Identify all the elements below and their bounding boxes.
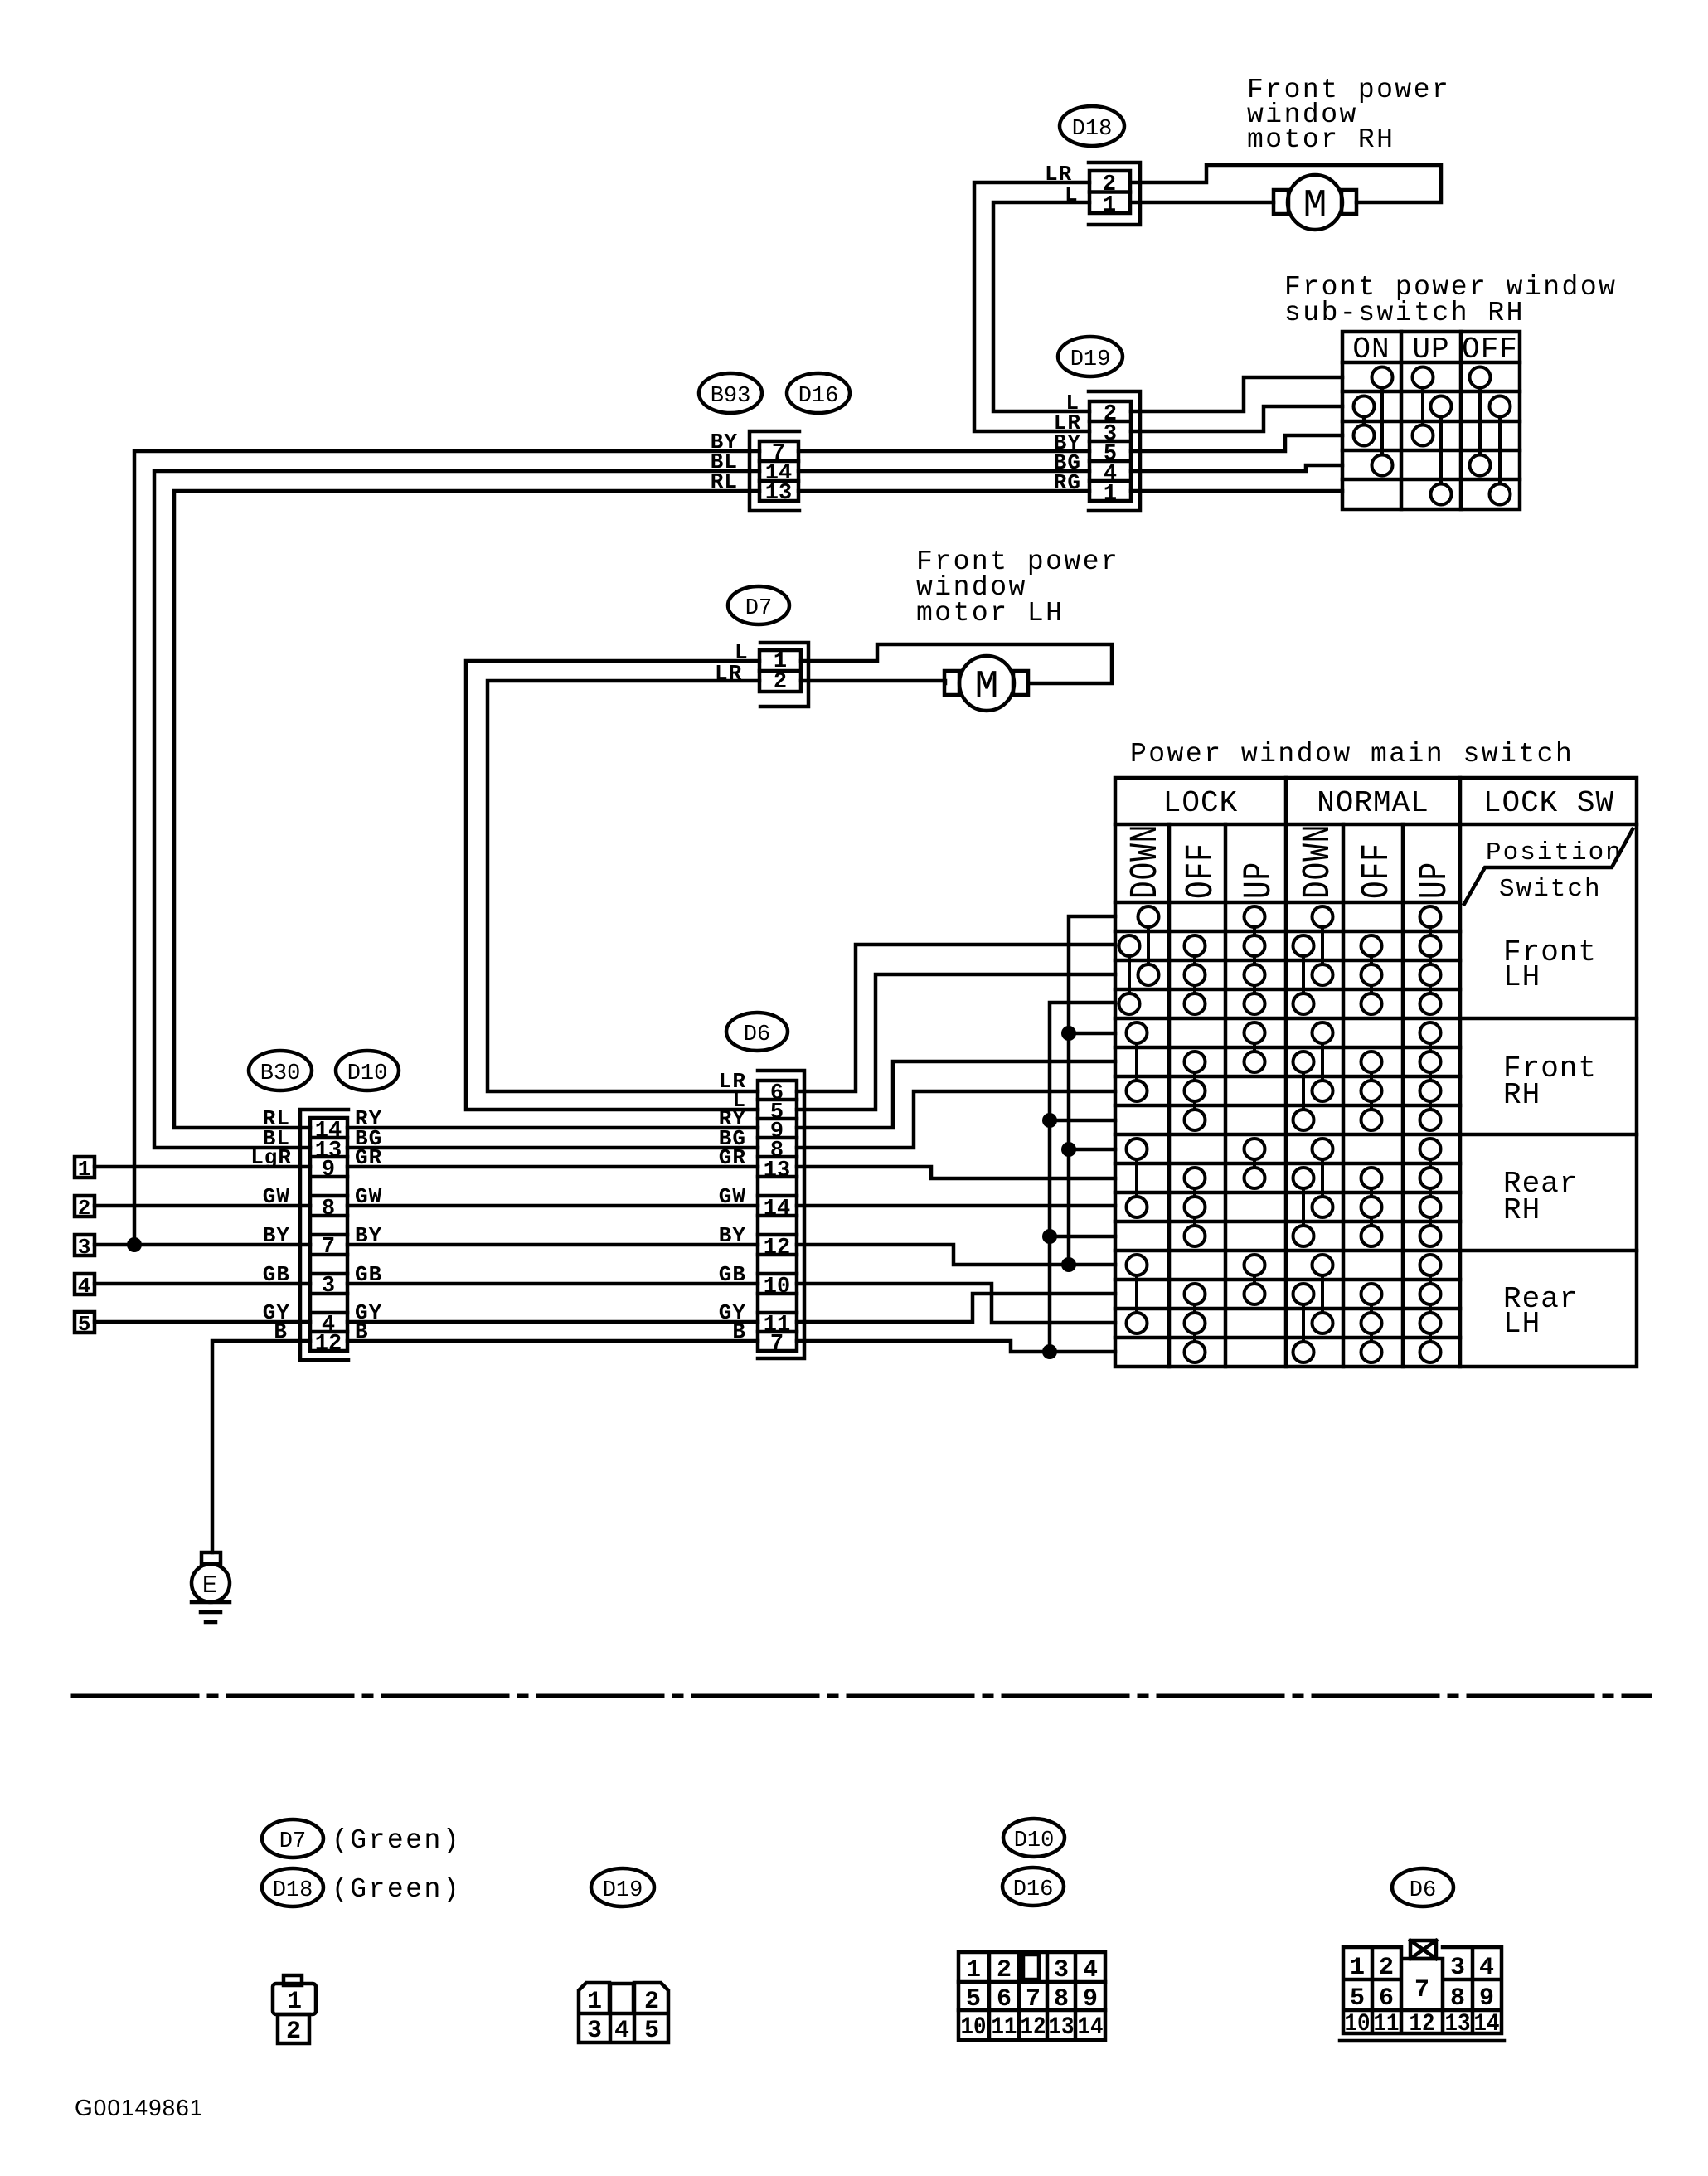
position/switch split cell	[1464, 829, 1633, 904]
wire D6 pin7 B to Rear LH row4 and ground bus	[797, 1341, 1115, 1352]
svg-text:motor RH: motor RH	[1247, 124, 1395, 155]
svg-text:RH: RH	[1503, 1193, 1541, 1227]
wire D7 pin2 to motor LH	[801, 681, 945, 683]
pinout D6	[1340, 1940, 1504, 2041]
svg-text:13: 13	[764, 1158, 790, 1183]
svg-text:3: 3	[1450, 1954, 1465, 1982]
svg-text:UP: UP	[1413, 862, 1458, 899]
svg-text:(Green): (Green)	[332, 1825, 461, 1856]
contact lines Rear LH block	[1137, 1265, 1430, 1353]
pinout D16	[958, 1952, 1105, 2042]
wire box2 to D10 pin8 GW	[95, 1204, 310, 1208]
connector D18	[1089, 163, 1140, 225]
separator dash-dot line	[73, 1694, 1650, 1698]
svg-text:8: 8	[1450, 1984, 1465, 2013]
svg-text:D18: D18	[273, 1878, 313, 1903]
wire color labels left of D6	[719, 1069, 746, 1344]
wire D19 pin2 to sub-switch row1	[1131, 377, 1342, 411]
connector B30/D10	[300, 1110, 348, 1360]
wire D6 pin6 LR to Front LH row2	[797, 945, 1115, 1091]
wire GR: D10 pin9 to D6 pin13	[347, 1165, 758, 1169]
power window main switch table frame	[1115, 778, 1637, 1367]
motor M front power window motor RH	[1274, 175, 1356, 230]
svg-text:3: 3	[587, 2017, 602, 2045]
svg-text:7: 7	[1026, 1985, 1041, 2013]
svg-text:M: M	[1303, 184, 1327, 229]
svg-text:OFF: OFF	[1355, 843, 1400, 899]
wire RL: B93 pin13 left run, drop, into D10 pin14	[174, 491, 759, 1128]
sub-switch contact lines	[1364, 377, 1500, 494]
connector D7	[759, 643, 808, 707]
pinout D7/D18	[273, 1975, 316, 2046]
svg-text:9: 9	[1083, 1985, 1098, 2013]
svg-text:NORMAL: NORMAL	[1317, 786, 1429, 820]
svg-text:4: 4	[614, 2017, 629, 2045]
svg-text:8: 8	[1054, 1985, 1069, 2013]
svg-text:5: 5	[644, 2017, 659, 2045]
connector label D6 (bottom)	[1392, 1868, 1453, 1906]
svg-text:6: 6	[1379, 1984, 1394, 2013]
svg-text:13: 13	[1049, 2013, 1075, 2042]
connector label B30	[249, 1051, 312, 1090]
svg-text:12: 12	[1410, 2010, 1435, 2038]
wire box3 to D10 pin7 BY	[95, 1243, 310, 1247]
sub-switch contact circles	[1354, 367, 1511, 505]
svg-text:G00149861: G00149861	[75, 2095, 203, 2120]
svg-text:7: 7	[322, 1235, 335, 1260]
connector label D7 (bottom)	[262, 1819, 323, 1858]
svg-text:4: 4	[1479, 1954, 1494, 1982]
wire color labels left of D10	[250, 1106, 292, 1344]
wire D6 pin14 GW to Rear RH row3	[797, 1204, 1115, 1208]
svg-text:D19: D19	[603, 1878, 643, 1903]
wire box4 to D10 pin3 GB	[95, 1282, 310, 1286]
connector D19	[1089, 391, 1140, 511]
svg-text:RH: RH	[1503, 1078, 1541, 1112]
svg-text:12: 12	[1021, 2013, 1046, 2042]
wire GY: D10 pin4 to D6 pin11	[347, 1320, 758, 1324]
svg-text:5: 5	[966, 1985, 981, 2013]
svg-text:Power window main switch: Power window main switch	[1130, 739, 1574, 770]
connector label D6	[726, 1013, 788, 1051]
bus stub to Rear RH row4	[1050, 1235, 1115, 1239]
wire GB: D10 pin3 to D6 pin10	[347, 1282, 758, 1286]
svg-text:11: 11	[992, 2013, 1017, 2042]
svg-text:4: 4	[1083, 1956, 1098, 1984]
wire D6 pin8 BG to Front RH row3	[797, 1091, 1115, 1148]
svg-text:12: 12	[764, 1236, 790, 1260]
connector label D7	[728, 586, 789, 624]
svg-text:5: 5	[78, 1312, 92, 1337]
bus stub to Rear RH row1	[1069, 1148, 1115, 1152]
bus wire row1 common	[1069, 916, 1115, 1265]
junction dot bus2/Front RH row4	[1042, 1113, 1057, 1128]
wire color labels at B93	[711, 430, 738, 494]
wire BY: D16 pin7 to D19 pin5	[798, 449, 1089, 454]
svg-text:LH: LH	[1503, 1307, 1541, 1341]
node box 2	[75, 1196, 95, 1221]
contact circles Rear RH block	[1127, 1139, 1441, 1246]
connector label D16	[787, 373, 850, 413]
bus stub to Front RH row4	[1050, 1119, 1115, 1123]
svg-text:D16: D16	[798, 384, 839, 409]
wire D18 pin2 to motor RH (upper loop)	[1130, 165, 1441, 202]
svg-text:1: 1	[587, 1988, 602, 2016]
svg-text:(Green): (Green)	[332, 1874, 461, 1905]
svg-text:2: 2	[644, 1988, 659, 2016]
svg-text:D6: D6	[1410, 1878, 1436, 1903]
svg-text:D7: D7	[279, 1829, 306, 1854]
svg-text:D18: D18	[1072, 117, 1113, 142]
svg-text:D10: D10	[347, 1061, 388, 1086]
svg-text:Switch: Switch	[1499, 875, 1602, 904]
wire BG: D10 pin13 to D6 pin8	[347, 1146, 758, 1150]
sub-switch RH table	[1342, 332, 1520, 509]
svg-text:9: 9	[1479, 1984, 1494, 2013]
wire D7 pin2 to D6 pin6 (LR)	[488, 681, 759, 1091]
svg-text:sub-switch RH: sub-switch RH	[1284, 298, 1525, 328]
wire box1 to D10 pin9 LgR	[95, 1165, 310, 1169]
motor M front power window motor LH	[944, 656, 1028, 711]
bus wire row4 common (ground)	[1050, 1003, 1115, 1352]
connector label D19 (bottom)	[591, 1868, 654, 1906]
row label Front LH	[1503, 935, 1597, 994]
svg-text:1: 1	[1104, 482, 1117, 507]
svg-text:D6: D6	[744, 1022, 770, 1047]
svg-text:12: 12	[315, 1332, 342, 1357]
svg-text:motor LH: motor LH	[916, 598, 1064, 629]
junction dot bus1/Rear RH row1	[1061, 1142, 1076, 1157]
node box 3	[75, 1235, 95, 1260]
svg-text:OFF: OFF	[1179, 843, 1224, 899]
wire D19 pin3 to sub-switch row2	[1131, 406, 1342, 431]
svg-text:4: 4	[78, 1274, 92, 1299]
wire D19 pin5 to sub-switch row3	[1131, 435, 1342, 451]
svg-text:B93: B93	[711, 384, 751, 409]
svg-text:LOCK SW: LOCK SW	[1483, 786, 1614, 820]
svg-text:14: 14	[1474, 2010, 1500, 2038]
wire D18 pin1 to motor RH	[1130, 201, 1274, 205]
svg-text:3: 3	[78, 1235, 92, 1260]
svg-text:1: 1	[287, 1988, 302, 2016]
wire D18 pin1 to D19 pin2	[993, 202, 1089, 411]
svg-text:13: 13	[765, 481, 792, 506]
wire color labels right of D10	[355, 1106, 382, 1344]
connector label D16 (bottom)	[1002, 1868, 1064, 1906]
pinout D19	[579, 1983, 668, 2045]
svg-text:5: 5	[1350, 1984, 1365, 2013]
junction dot bus1/Front RH row1	[1061, 1026, 1076, 1041]
connector label D18	[1060, 106, 1124, 146]
connector label D19	[1058, 337, 1123, 376]
connector label B93	[699, 373, 762, 413]
svg-text:UP: UP	[1237, 862, 1282, 899]
wire B to ground drop	[212, 1341, 310, 1552]
contact lines Front RH block	[1137, 1033, 1430, 1120]
svg-text:OFF: OFF	[1462, 333, 1518, 367]
svg-text:M: M	[975, 665, 999, 710]
label Front power window motor RH	[1247, 75, 1450, 155]
wire D19 pin1 to sub-switch row5	[1131, 489, 1342, 493]
svg-text:2: 2	[774, 670, 787, 695]
row label Rear RH	[1503, 1167, 1578, 1227]
connector label D10 (bottom)	[1003, 1819, 1065, 1857]
ground E	[192, 1552, 230, 1622]
svg-text:3: 3	[322, 1274, 335, 1299]
label Front power window motor LH	[916, 546, 1119, 629]
wire D18 pin2 to D19 pin3	[974, 182, 1089, 431]
svg-text:D19: D19	[1070, 347, 1111, 372]
svg-text:10: 10	[1345, 2010, 1371, 2038]
junction dot bus1 bottom on BY wire	[1061, 1257, 1076, 1272]
svg-text:2: 2	[78, 1196, 92, 1221]
svg-text:DOWN: DOWN	[1296, 824, 1341, 899]
svg-text:3: 3	[1054, 1956, 1069, 1984]
junction dot BY vertical to box3 wire	[127, 1237, 142, 1252]
svg-text:1: 1	[1103, 193, 1116, 218]
junction dot bus2/Rear RH row4	[1042, 1229, 1057, 1244]
wire B: D10 pin12 to D6 pin7	[347, 1339, 758, 1343]
wire color labels at D19	[1054, 391, 1081, 495]
svg-text:10: 10	[764, 1275, 790, 1299]
connector D6	[758, 1071, 804, 1358]
connector B93/D16	[750, 431, 799, 511]
row label Rear LH	[1503, 1282, 1578, 1341]
contact lines Front LH block	[1129, 917, 1430, 1004]
node box 5	[75, 1312, 95, 1337]
wire D6 pin13 GR to Rear RH row2	[797, 1167, 1115, 1178]
svg-text:UP: UP	[1412, 333, 1449, 367]
wire D6 pin5 L to Front LH row3	[797, 974, 1115, 1110]
contact circles Rear LH block	[1127, 1255, 1441, 1362]
row label Front RH	[1503, 1052, 1597, 1112]
svg-text:7: 7	[770, 1332, 784, 1357]
svg-text:B30: B30	[260, 1061, 301, 1086]
svg-text:7: 7	[1414, 1976, 1429, 2004]
wire D6 pin12 BY to Rear LH row1 and bus	[797, 1245, 1115, 1265]
svg-text:LOCK: LOCK	[1163, 786, 1238, 820]
wire RY: D10 pin14 to D6 pin9	[347, 1126, 758, 1130]
svg-text:10: 10	[961, 2013, 987, 2042]
wire D6 pin10 GB to Rear LH row3	[797, 1284, 1115, 1323]
bus stub to Front RH row1	[1069, 1032, 1115, 1036]
svg-text:D10: D10	[1014, 1829, 1055, 1853]
wire BG: D16 pin14 to D19 pin4	[798, 469, 1089, 474]
svg-text:1: 1	[78, 1157, 92, 1182]
svg-text:LH: LH	[1503, 960, 1541, 994]
contact circles Front RH block	[1127, 1022, 1441, 1130]
wire D6 pin11 GY to Rear LH row2	[797, 1294, 1115, 1322]
contact lines Rear RH block	[1137, 1149, 1430, 1236]
svg-text:ON: ON	[1352, 333, 1390, 367]
wire RG: D16 pin13 to D19 pin1	[798, 489, 1089, 493]
svg-text:1: 1	[966, 1956, 981, 1984]
svg-text:DOWN: DOWN	[1123, 824, 1168, 899]
wire D19 pin4 to sub-switch row4	[1131, 465, 1342, 471]
svg-text:8: 8	[322, 1197, 335, 1222]
svg-text:D16: D16	[1013, 1877, 1054, 1902]
connector label D18 (bottom)	[262, 1868, 323, 1906]
svg-text:D7: D7	[745, 596, 772, 621]
svg-text:2: 2	[1379, 1954, 1394, 1982]
wire D7 pin1 to D6 pin5 (L)	[466, 661, 759, 1110]
wire BY: B93 pin7 left run and drop to junction	[134, 451, 759, 1245]
wire BY: D10 pin7 to D6 pin12	[347, 1243, 758, 1247]
svg-text:2: 2	[286, 2018, 301, 2046]
wire D7 pin1 to motor LH upper loop	[801, 644, 1112, 683]
wire D6 pin9 RY to Front RH row2	[797, 1061, 1115, 1128]
label Front power window sub-switch RH	[1284, 272, 1617, 328]
svg-text:13: 13	[1445, 2010, 1471, 2038]
wire GW: D10 pin8 to D6 pin14	[347, 1204, 758, 1208]
junction dot bus2 bottom on B wire	[1042, 1344, 1057, 1359]
wire box5 to D10 pin4 GY	[95, 1320, 310, 1324]
node box 4	[75, 1274, 95, 1299]
svg-text:6: 6	[997, 1985, 1012, 2013]
svg-text:14: 14	[764, 1197, 790, 1222]
wire BL: B93 pin14 left run, drop, into D10 pin13	[154, 471, 759, 1148]
svg-text:Position: Position	[1486, 838, 1623, 867]
svg-text:1: 1	[1350, 1954, 1365, 1982]
svg-text:2: 2	[997, 1956, 1012, 1984]
contact circles Front LH block	[1119, 906, 1441, 1014]
node box 1	[75, 1157, 95, 1182]
svg-text:9: 9	[322, 1158, 335, 1183]
svg-text:11: 11	[1374, 2010, 1400, 2038]
svg-text:14: 14	[1078, 2013, 1104, 2042]
connector label D10	[336, 1051, 399, 1090]
svg-text:E: E	[202, 1571, 220, 1600]
